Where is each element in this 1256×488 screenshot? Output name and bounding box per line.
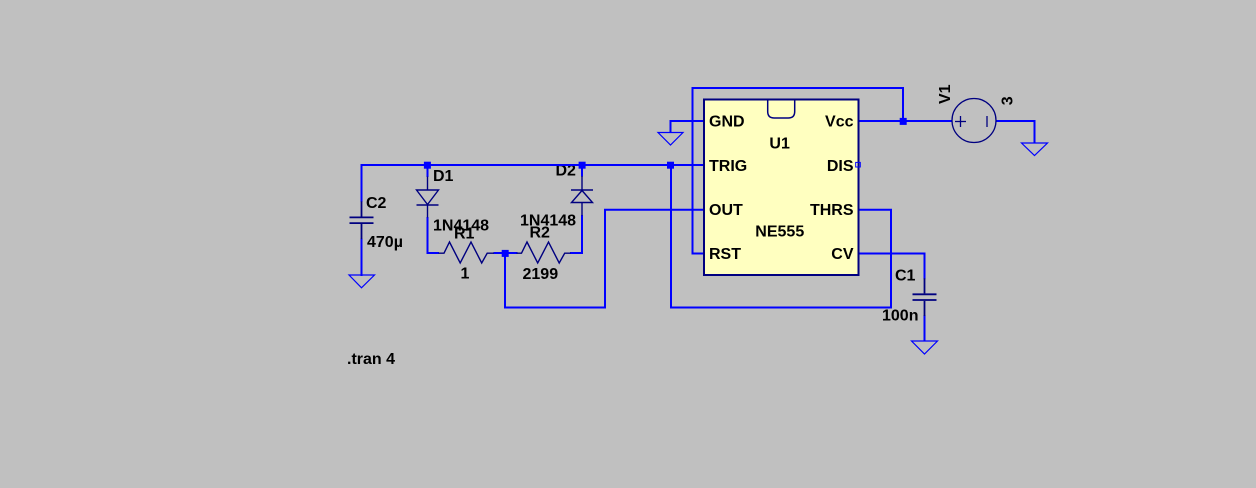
svg-text:TRIG: TRIG [709,158,747,175]
wire: V1 minus terminal to ground flag [996,121,1035,144]
diode D2 [571,176,593,216]
svg-text:100n: 100n [882,308,918,325]
svg-text:3: 3 [1000,96,1017,105]
ground (C1 flag) [912,341,938,354]
svg-text:1: 1 [461,266,470,283]
wire: D1 anode lead from junction [427,165,429,177]
svg-text:GND: GND [709,114,745,131]
capacitor C2 [350,201,374,239]
IC U1 NE555 timer body [704,100,859,276]
svg-text:Vcc: Vcc [825,114,854,131]
junction node R1/R2/OUT [502,250,509,257]
voltage source V1 [952,99,996,143]
ground (GND pin flag) [658,133,683,146]
wire: CV pin to C1 top [858,254,925,280]
wire: C1 bottom to ground flag [924,315,926,342]
svg-text:R1: R1 [454,226,475,243]
svg-text:.tran 4: .tran 4 [347,351,395,368]
wire: D1 cathode down and left lead of R1 [428,217,440,253]
wire: D2 cathode up to top rail [581,165,583,177]
wire: C2 bottom lead to ground [361,239,363,277]
wire: OUT loop to R1/R2 junction [505,210,704,308]
diode D1 [417,177,439,218]
ground (V1 flag) [1022,143,1048,156]
wire: top rail net TRIG (C2 to U1 TRIG pin) [362,164,705,166]
junction node TRIG branch [667,162,674,169]
svg-text:OUT: OUT [709,202,743,219]
junction node D2/top rail [579,162,586,169]
svg-text:DIS: DIS [827,158,854,175]
capacitor C1 [913,278,937,316]
junction node D1/top rail [424,162,431,169]
wire: C2 top lead [361,164,363,202]
svg-text:2199: 2199 [523,266,559,283]
DIS unconnected pin marker [856,162,861,167]
svg-text:C1: C1 [895,268,916,285]
svg-text:C2: C2 [366,195,387,212]
svg-text:NE555: NE555 [755,224,804,241]
resistor R1 [439,242,495,263]
svg-text:1N4148: 1N4148 [520,212,576,229]
svg-text:470µ: 470µ [367,234,403,251]
wire: GND pin stub to ground flag [671,121,705,133]
ground (below C2) [349,275,375,288]
wire: R1 to R2 through mid junction [494,252,518,254]
svg-text:THRS: THRS [810,202,854,219]
svg-text:D1: D1 [433,168,454,185]
wire: RST pin loop over top to Vcc node [693,88,904,254]
svg-text:V1: V1 [937,84,954,104]
U1 notch [768,100,795,119]
svg-text:RST: RST [709,246,741,263]
wire: TRIG junction down, bottom rail, up to THRS [671,165,891,308]
junction node Vcc [900,118,907,125]
wire: THRS pin stub [858,209,892,211]
resistor R2 [517,242,571,263]
svg-text:U1: U1 [769,135,790,152]
wire: R2 right lead up to D2 anode [570,215,582,253]
svg-text:CV: CV [831,246,854,263]
wire: Vcc pin to V1 plus terminal [858,120,952,122]
